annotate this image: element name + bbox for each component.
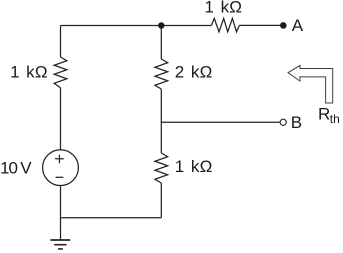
svg-text:1 kΩ: 1 kΩ (175, 157, 213, 176)
svg-text:1 kΩ: 1 kΩ (205, 0, 243, 17)
svg-text:1 kΩ: 1 kΩ (10, 63, 48, 82)
svg-text:V: V (20, 159, 32, 178)
svg-text:A: A (292, 16, 304, 35)
svg-text:th: th (330, 112, 340, 126)
svg-text:B: B (291, 113, 303, 132)
svg-text:2 kΩ: 2 kΩ (175, 62, 213, 81)
svg-text:10: 10 (0, 159, 17, 178)
svg-text:R: R (318, 105, 330, 124)
